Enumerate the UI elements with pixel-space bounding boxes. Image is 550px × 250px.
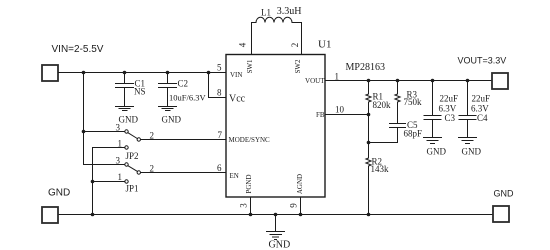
junction on VIN rail at C1 [123, 71, 127, 75]
svg-text:C2: C2 [178, 79, 189, 89]
svg-text:10: 10 [335, 105, 345, 115]
junction at JP2 pin3 [82, 130, 86, 134]
wire PGND pin 3 [250, 197, 252, 215]
svg-text:GND: GND [269, 240, 291, 250]
ground under C3 [424, 138, 442, 144]
port terminal GND left [42, 207, 58, 223]
wire VIN rail [59, 72, 227, 74]
svg-text:3: 3 [116, 156, 121, 166]
junction on VIN rail at Vcc branch [207, 71, 211, 75]
wire JP1 pin1 [93, 181, 125, 183]
capacitor C4 [459, 81, 476, 138]
svg-text:7: 7 [218, 130, 223, 140]
svg-text:8: 8 [217, 88, 222, 98]
resistor R1 [366, 81, 371, 115]
jumper JP1 [125, 163, 128, 166]
wire SW2 pin 2 up [292, 23, 302, 55]
svg-text:22uF: 22uF [472, 94, 491, 104]
junction bus at PGND [249, 213, 253, 217]
svg-text:VOUT: VOUT [305, 77, 325, 85]
jumper JP2 [125, 130, 128, 133]
svg-text:L1: L1 [261, 8, 271, 18]
svg-text:PGND: PGND [245, 174, 253, 193]
svg-text:MODE/SYNC: MODE/SYNC [229, 136, 271, 144]
svg-text:FB: FB [316, 111, 325, 119]
port terminal GND right [493, 206, 509, 222]
capacitor C5 [390, 124, 406, 143]
svg-text:GND: GND [48, 188, 70, 199]
svg-text:C4: C4 [477, 113, 488, 123]
svg-text:NS: NS [134, 87, 146, 97]
port terminal VIN [42, 65, 58, 81]
svg-text:6.3V: 6.3V [439, 104, 457, 114]
wire Vcc branch to pin 8 [209, 73, 227, 98]
wire FB node to lower node [368, 115, 370, 143]
svg-text:GND: GND [119, 114, 139, 124]
junction VOUT at C4 [466, 79, 470, 83]
svg-text:3.3uH: 3.3uH [277, 6, 302, 17]
capacitor C1 [116, 73, 134, 107]
svg-text:6: 6 [217, 163, 222, 173]
svg-text:C3: C3 [445, 113, 456, 123]
resistor R2 [366, 143, 371, 215]
svg-text:VOUT=3.3V: VOUT=3.3V [458, 55, 507, 65]
junction VOUT at C3 [431, 79, 435, 83]
svg-text:JP1: JP1 [126, 184, 139, 194]
junction bus at ground symbol [274, 213, 278, 217]
junction VOUT at R3 [396, 79, 400, 83]
svg-text:820k: 820k [373, 100, 392, 110]
op-amp U1 IC body MP28163 [226, 55, 325, 198]
inductor L1 [256, 17, 292, 22]
wire jumper feed vertical from VIN [83, 73, 85, 165]
svg-text:GND: GND [427, 146, 447, 156]
wire JP1 pin2 to EN [141, 172, 227, 174]
svg-text:3: 3 [116, 123, 121, 133]
junction VOUT at R1 [367, 79, 371, 83]
capacitor C2 [159, 73, 177, 107]
svg-text:GND: GND [162, 114, 182, 124]
wire VOUT rail [325, 80, 491, 82]
svg-text:VIN: VIN [230, 71, 242, 79]
svg-text:10uF/6.3V: 10uF/6.3V [169, 93, 206, 103]
svg-text:750k: 750k [404, 97, 423, 107]
ground under C1 [116, 107, 134, 111]
svg-text:2: 2 [150, 163, 155, 173]
junction bus at R2 [367, 213, 371, 217]
wire C5/R3 bottom to divider node [369, 142, 398, 144]
wire FB to divider [325, 114, 369, 116]
port terminal VOUT [492, 73, 508, 89]
svg-text:SW1: SW1 [246, 59, 254, 74]
junction bus at jumper ground [91, 213, 95, 217]
svg-text:68pF: 68pF [404, 129, 423, 139]
ground under C4 [459, 138, 477, 144]
svg-text:VIN=2-5.5V: VIN=2-5.5V [52, 44, 104, 55]
svg-text:4: 4 [238, 42, 248, 47]
junction at JP1 pin1 [91, 180, 95, 184]
wire AGND pin 9 [300, 197, 302, 215]
svg-text:JP2: JP2 [126, 151, 139, 161]
svg-text:SW2: SW2 [294, 59, 302, 74]
wire JP2 pin2 to MODE/SYNC [141, 139, 227, 141]
wire JP1 pin3 [84, 164, 125, 166]
svg-text:MP28163: MP28163 [346, 62, 385, 73]
wire SW1 pin 4 up [252, 23, 257, 55]
svg-text:1: 1 [118, 172, 123, 182]
junction bus at AGND [299, 213, 303, 217]
svg-text:5: 5 [217, 63, 222, 73]
resistor R3 [395, 81, 400, 124]
ground under C2 [159, 107, 177, 111]
svg-text:GND: GND [462, 146, 482, 156]
junction on VIN rail at jumper column [82, 71, 86, 75]
svg-text:6.3V: 6.3V [471, 104, 489, 114]
svg-text:143k: 143k [371, 164, 390, 174]
svg-text:Vcc: Vcc [229, 94, 246, 105]
junction FB node [367, 113, 371, 117]
svg-text:9: 9 [289, 203, 299, 208]
junction on VIN rail at C2 [166, 71, 170, 75]
svg-text:22uF: 22uF [440, 94, 459, 104]
wire ground bus [59, 214, 493, 216]
svg-text:3: 3 [239, 203, 249, 208]
svg-text:AGND: AGND [296, 174, 304, 194]
wire JP2 pin1 [93, 147, 125, 149]
wire JP2 pin3 [84, 131, 125, 133]
svg-text:2: 2 [290, 43, 300, 48]
capacitor C3 [424, 81, 441, 138]
svg-text:EN: EN [230, 172, 239, 180]
junction lower divider node [367, 141, 371, 145]
wire jumper ground vertical [92, 148, 94, 215]
svg-text:U1: U1 [318, 39, 331, 51]
svg-text:GND: GND [494, 188, 515, 198]
ground symbol center [267, 215, 285, 240]
